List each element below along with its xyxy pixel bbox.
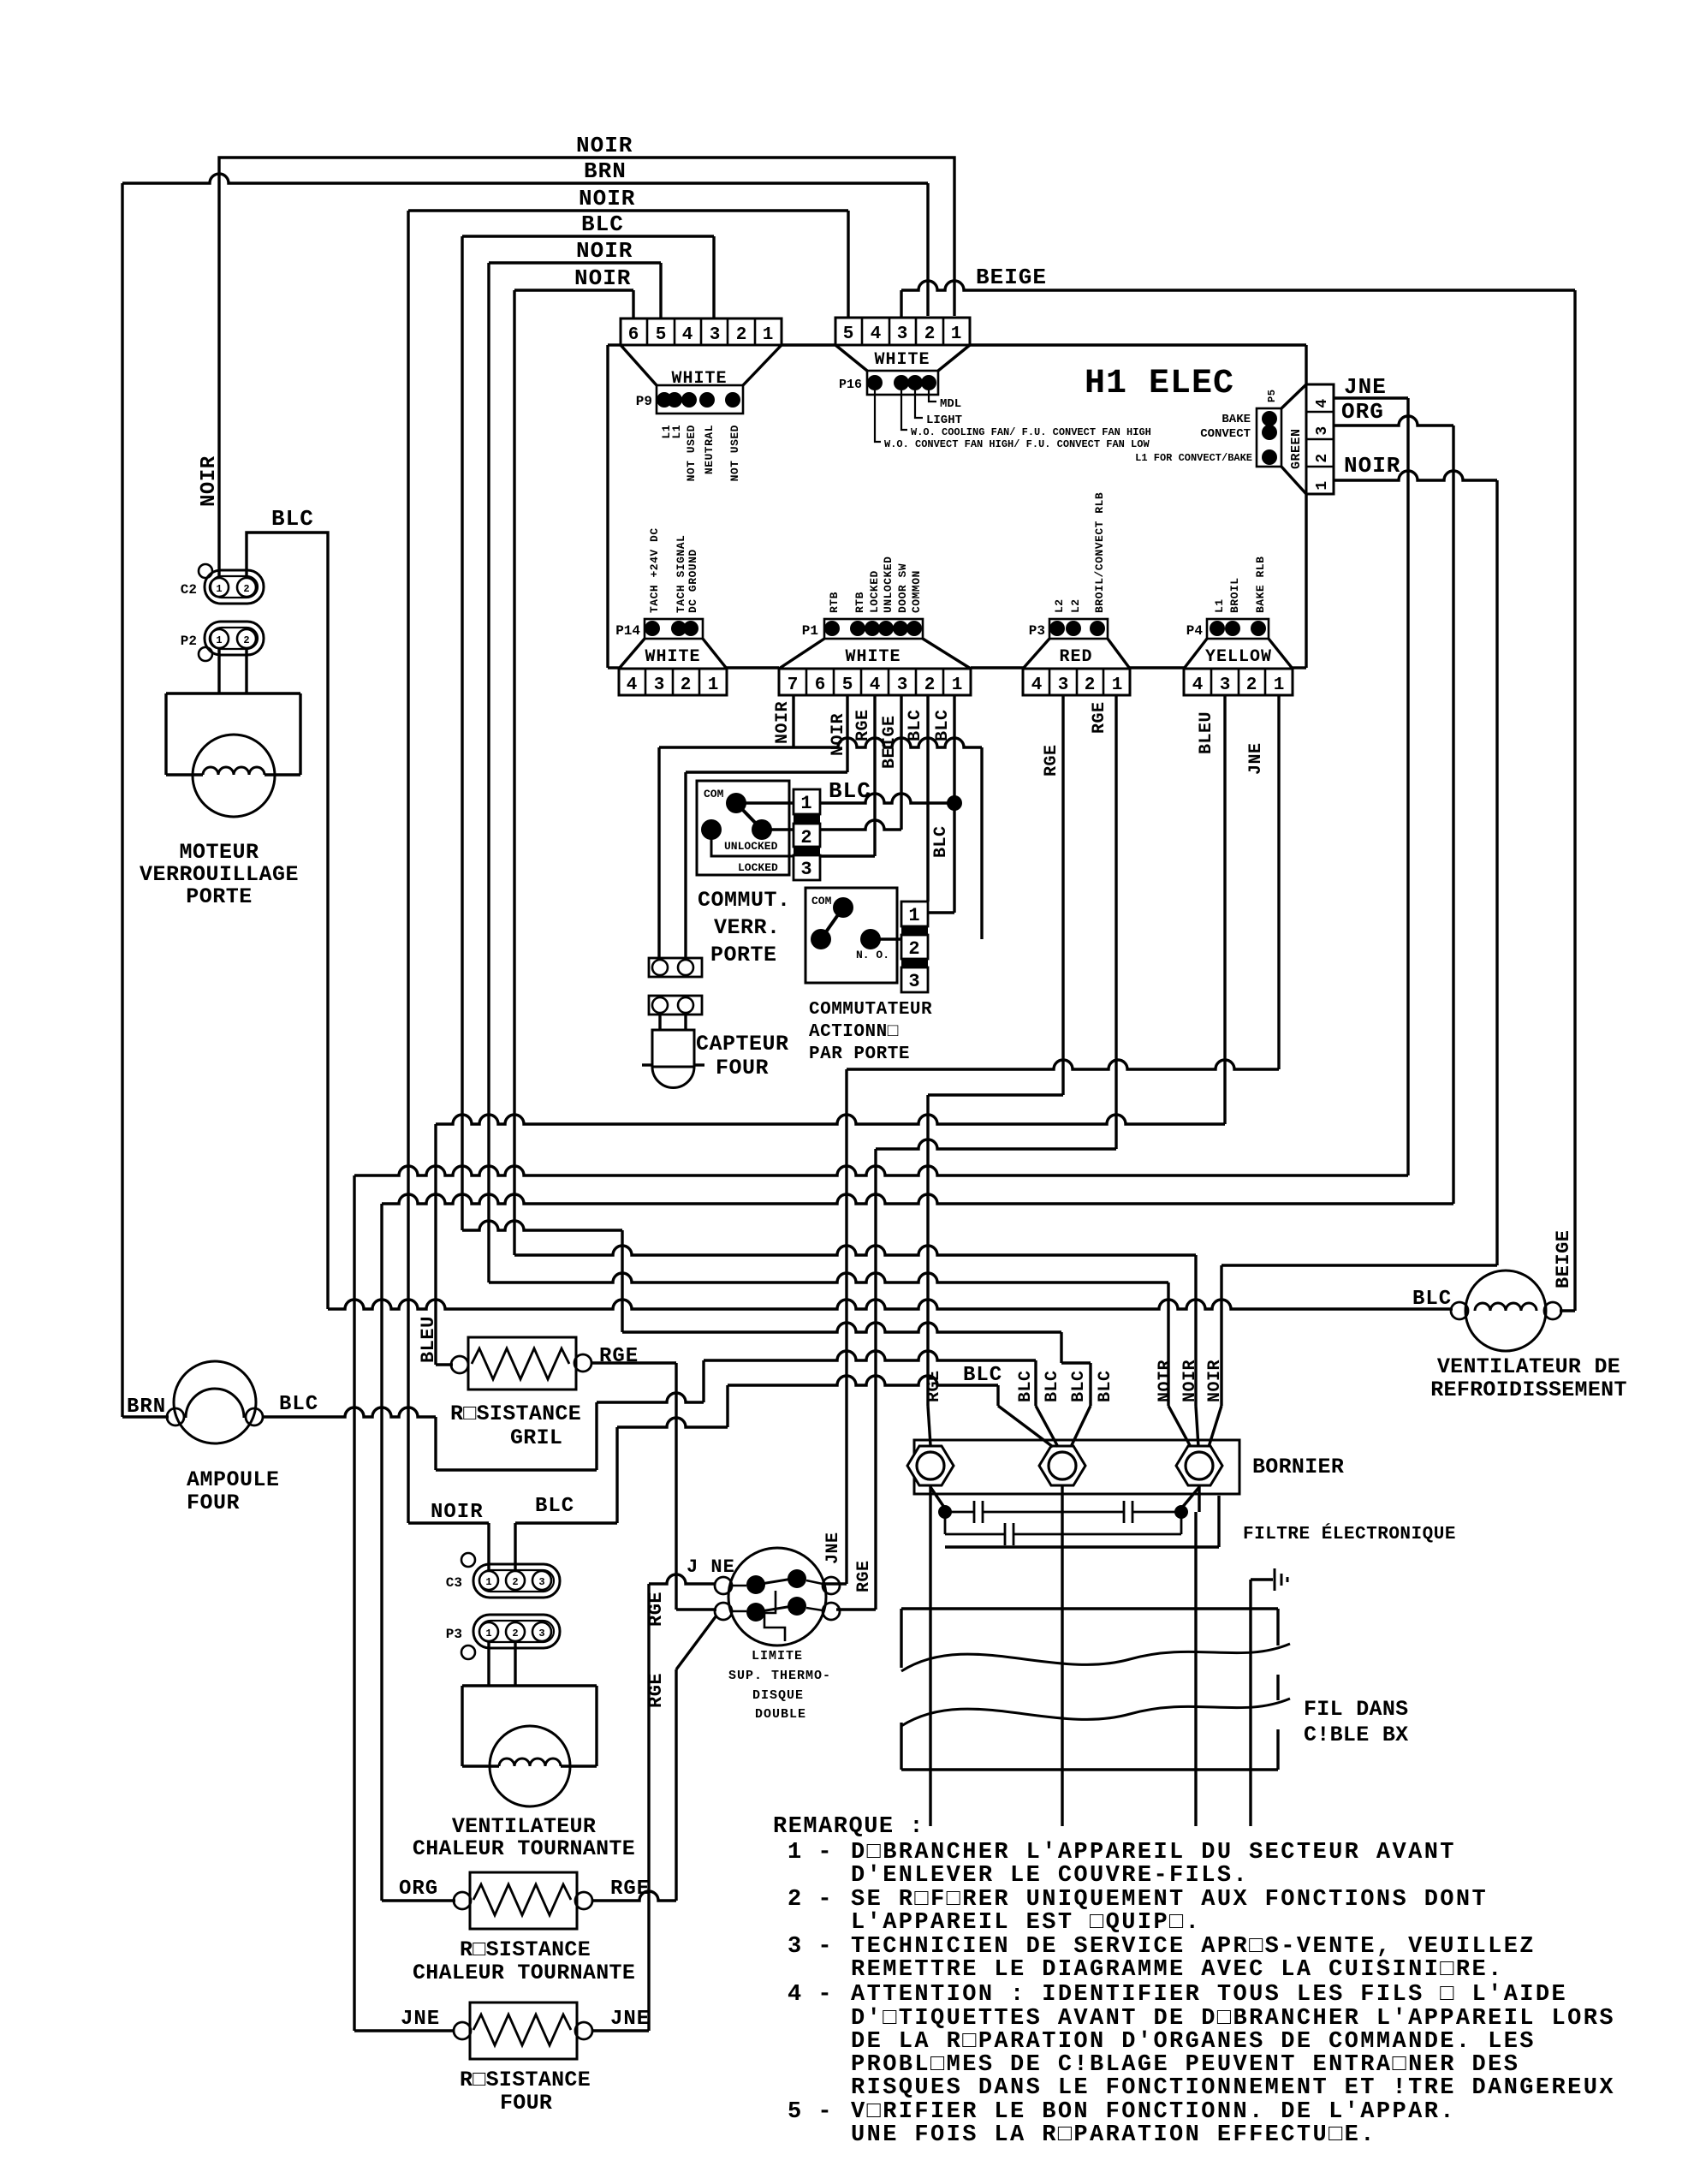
- wire BLC from C2 pin2: [247, 533, 328, 1309]
- wire NOIR from P1 pin7 to oven sensor: [792, 695, 794, 747]
- filter capacitor 3 lower rail: [944, 1512, 947, 1534]
- svg-text:VERR.: VERR.: [714, 915, 781, 940]
- wire NOIR from P5 pin1 to bornier: [1222, 1264, 1497, 1266]
- svg-text:DISQUE: DISQUE: [752, 1688, 804, 1703]
- svg-text:NOIR: NOIR: [431, 1501, 484, 1524]
- svg-text:BROIL/CONVECT RLB: BROIL/CONVECT RLB: [1093, 492, 1106, 613]
- svg-text:FOUR: FOUR: [187, 1491, 240, 1515]
- svg-text:DE LA R□PARATION D'ORGANES DE: DE LA R□PARATION D'ORGANES DE COMMANDE. …: [851, 2029, 1536, 2055]
- connector P9 cells 6-1: [621, 318, 782, 345]
- wire ORG from P5 pin3: [1334, 416, 1453, 425]
- svg-text:BLEU: BLEU: [1197, 711, 1216, 754]
- svg-text:3: 3: [897, 324, 908, 344]
- svg-text:WHITE: WHITE: [845, 647, 901, 667]
- wire BEIGE (P16 pin3 to cooling fan): [901, 281, 1575, 290]
- svg-text:COMMUTATEUR: COMMUTATEUR: [809, 1000, 932, 1020]
- svg-text:1: 1: [485, 1628, 491, 1639]
- wire P2 to motor: [217, 648, 220, 693]
- svg-text:H1 ELEC: H1 ELEC: [1085, 365, 1234, 403]
- wire BLC from P1 pin2: [926, 695, 929, 902]
- svg-text:UNE FOIS LA R□PARATION EFFECTU: UNE FOIS LA R□PARATION EFFECTU□E.: [851, 2122, 1376, 2148]
- svg-text:L'APPAREIL EST □QUIP□.: L'APPAREIL EST □QUIP□.: [851, 1910, 1201, 1936]
- svg-text:BLC: BLC: [963, 1364, 1002, 1387]
- svg-text:BLC: BLC: [1069, 1370, 1089, 1402]
- svg-text:VERROUILLAGE: VERROUILLAGE: [140, 862, 299, 887]
- bornier post 1: [907, 1446, 954, 1485]
- svg-text:CHALEUR TOURNANTE: CHALEUR TOURNANTE: [413, 1836, 635, 1861]
- connector P14 trapezoid WHITE: [619, 639, 645, 669]
- bornier post 2: [1039, 1446, 1085, 1485]
- svg-text:1: 1: [1274, 675, 1285, 695]
- oven sensor connector upper: [649, 958, 702, 977]
- svg-text:1: 1: [216, 634, 222, 646]
- wire bus B JNE (convect element to P5 pin4): [354, 1166, 1408, 1175]
- svg-text:4: 4: [870, 675, 881, 695]
- convection fan box: [462, 1684, 597, 1687]
- svg-text:RISQUES DANS LE FONCTIONNEMENT: RISQUES DANS LE FONCTIONNEMENT ET !TRE D…: [851, 2075, 1615, 2101]
- svg-text:PAR PORTE: PAR PORTE: [809, 1044, 910, 1064]
- ground symbol: [1249, 1580, 1251, 1826]
- wire RGE from convect element up to thermodisc: [592, 1891, 676, 1901]
- svg-text:FOUR: FOUR: [500, 2091, 552, 2116]
- convect element RESISTANCE CHALEUR TOURNANTE: [470, 1872, 577, 1929]
- connector C3: [461, 1553, 475, 1567]
- svg-text:6: 6: [628, 325, 639, 345]
- svg-text:PORTE: PORTE: [186, 884, 253, 909]
- convection fan VENTILATEUR CHALEUR TOURNANTE: [490, 1726, 570, 1806]
- wire NOIR (line 6, P9 pin6 to bus E): [514, 289, 633, 291]
- svg-text:UNLOCKED: UNLOCKED: [882, 556, 895, 613]
- svg-text:JNE: JNE: [610, 2008, 650, 2031]
- svg-text:REMETTRE LE DIAGRAMME AVEC LA: REMETTRE LE DIAGRAMME AVEC LA CUISINI□RE…: [851, 1957, 1504, 1983]
- svg-text:P3: P3: [1029, 623, 1045, 639]
- svg-text:1: 1: [216, 583, 222, 595]
- svg-text:DC GROUND: DC GROUND: [687, 549, 699, 613]
- svg-text:LIMITE: LIMITE: [752, 1649, 803, 1663]
- connector P16 pin header: [867, 371, 938, 395]
- broil element RESISTANCE GRIL: [468, 1337, 576, 1390]
- terminal block BORNIER box: [914, 1440, 1239, 1494]
- svg-text:JNE: JNE: [1344, 374, 1387, 400]
- svg-text:GREEN: GREEN: [1289, 428, 1304, 469]
- wire RGE from P1 pin4: [873, 695, 876, 856]
- connector P4 trapezoid YELLOW: [1184, 639, 1207, 669]
- oven lamp AMPOULE FOUR: [174, 1361, 256, 1443]
- svg-text:NOIR: NOIR: [574, 265, 631, 291]
- svg-text:VENTILATEUR DE: VENTILATEUR DE: [1437, 1354, 1620, 1379]
- svg-text:L1 FOR CONVECT/BAKE: L1 FOR CONVECT/BAKE: [1135, 452, 1252, 464]
- svg-text:3: 3: [897, 675, 908, 695]
- svg-text:V□RIFIER LE BON FONCTIONN. DE: V□RIFIER LE BON FONCTIONN. DE L'APPAR.: [851, 2099, 1456, 2125]
- svg-text:BRN: BRN: [584, 158, 627, 184]
- svg-text:NEUTRAL: NEUTRAL: [703, 425, 716, 474]
- P16 internal signal MDL: [929, 390, 936, 402]
- svg-text:4: 4: [1314, 398, 1331, 408]
- svg-text:BLC: BLC: [1016, 1370, 1036, 1402]
- svg-text:PORTE: PORTE: [710, 943, 777, 967]
- svg-text:4: 4: [1031, 675, 1043, 695]
- svg-text:BLC: BLC: [829, 778, 871, 804]
- svg-text:1: 1: [908, 905, 919, 926]
- svg-text:P14: P14: [615, 623, 640, 639]
- wire JNE from P5 pin4: [1334, 396, 1408, 399]
- filter wire post1 down: [929, 1485, 931, 1826]
- wire NOIR (line 5, P9 pin5 to bus L1): [489, 261, 661, 264]
- svg-text:RED: RED: [1059, 647, 1092, 667]
- svg-text:2 -: 2 -: [788, 1887, 833, 1913]
- connector P4 cells 4-1: [1184, 669, 1293, 695]
- svg-text:UNLOCKED: UNLOCKED: [724, 840, 778, 853]
- wire door lock sw terminal2 to BEIGE: [820, 820, 901, 830]
- svg-text:2: 2: [736, 325, 747, 345]
- svg-text:BLC: BLC: [535, 1495, 574, 1518]
- svg-text:L2: L2: [1069, 598, 1082, 613]
- svg-text:WHITE: WHITE: [645, 647, 700, 667]
- BX cable wave 1: [901, 1644, 1290, 1671]
- svg-text:3: 3: [654, 675, 665, 695]
- svg-text:BLC: BLC: [271, 506, 314, 532]
- svg-text:4: 4: [627, 675, 638, 695]
- svg-text:MDL: MDL: [940, 397, 961, 411]
- connector P3 oval: [473, 1615, 560, 1648]
- oven sensor connector lower: [649, 996, 702, 1015]
- svg-text:BLC: BLC: [931, 825, 951, 858]
- svg-text:LOCKED: LOCKED: [738, 861, 778, 874]
- svg-text:1: 1: [952, 675, 963, 695]
- svg-text:2: 2: [924, 675, 936, 695]
- svg-text:L2: L2: [1053, 598, 1066, 613]
- svg-text:BLC: BLC: [906, 709, 925, 741]
- door lock motor: [193, 735, 275, 817]
- svg-text:COM: COM: [704, 788, 724, 800]
- connector P9 pin header: [657, 385, 743, 414]
- svg-text:D'ENLEVER LE COUVRE-FILS.: D'ENLEVER LE COUVRE-FILS.: [851, 1863, 1249, 1889]
- BX cable wave 2: [901, 1699, 1290, 1726]
- wire BLC (P9 pin3 down to line D): [462, 235, 714, 237]
- wire NOIR from P5 pin1: [1334, 471, 1497, 480]
- svg-text:1: 1: [708, 675, 719, 695]
- svg-text:P1: P1: [802, 623, 818, 639]
- svg-text:ATTENTION : IDENTIFIER TOUS LE: ATTENTION : IDENTIFIER TOUS LES FILS □ L…: [851, 1982, 1567, 2008]
- door-actuated switch terminals 1-3: [901, 902, 928, 926]
- svg-text:REFROIDISSEMENT: REFROIDISSEMENT: [1430, 1378, 1627, 1402]
- svg-text:JNE: JNE: [401, 2008, 440, 2031]
- wire bus L1 NOIR (P9 pin5 chain to bornier): [489, 1273, 1168, 1282]
- connector P1 trapezoid WHITE: [779, 639, 824, 669]
- svg-text:P2: P2: [181, 634, 197, 649]
- connector P16 trapezoid WHITE: [835, 345, 867, 371]
- svg-text:1: 1: [485, 1576, 491, 1588]
- svg-text:BEIGE: BEIGE: [1553, 1229, 1574, 1288]
- svg-text:BEIGE: BEIGE: [880, 715, 900, 769]
- bornier post 3: [1176, 1446, 1222, 1485]
- svg-text:3 -: 3 -: [788, 1934, 833, 1960]
- svg-text:RGE: RGE: [610, 1878, 650, 1901]
- svg-text:AMPOULE: AMPOULE: [187, 1467, 280, 1492]
- svg-text:RGE: RGE: [599, 1345, 639, 1368]
- svg-text:P3: P3: [446, 1627, 462, 1642]
- svg-text:3: 3: [538, 1576, 544, 1588]
- svg-text:C2: C2: [181, 582, 197, 598]
- connector P1 cells 7-1: [779, 669, 971, 695]
- wire BLC from lamp (chain to bornier): [263, 1407, 436, 1417]
- filter box outline: [945, 1545, 1219, 1548]
- svg-text:4: 4: [682, 325, 693, 345]
- svg-text:R□SISTANCE: R□SISTANCE: [460, 1937, 591, 1962]
- svg-text:W.O. COOLING FAN/ F.U. CONVECT: W.O. COOLING FAN/ F.U. CONVECT FAN HIGH: [911, 426, 1151, 438]
- svg-text:NOIR: NOIR: [576, 238, 633, 264]
- svg-text:1: 1: [800, 793, 811, 814]
- svg-text:BAKE RLB: BAKE RLB: [1254, 556, 1267, 613]
- door lock motor box: [166, 692, 300, 694]
- svg-text:LIGHT: LIGHT: [926, 414, 962, 427]
- svg-text:JNE: JNE: [823, 1532, 843, 1564]
- svg-text:FILTRE ÉLECTRONIQUE: FILTRE ÉLECTRONIQUE: [1243, 1524, 1456, 1544]
- svg-text:NOIR: NOIR: [1156, 1360, 1175, 1402]
- svg-text:CAPTEUR: CAPTEUR: [696, 1032, 789, 1056]
- svg-text:J NE: J NE: [687, 1556, 735, 1578]
- wire bus D BLC: [462, 1221, 622, 1230]
- svg-text:YELLOW: YELLOW: [1205, 647, 1272, 667]
- svg-text:NOIR: NOIR: [579, 186, 635, 211]
- svg-text:L1: L1: [670, 425, 683, 439]
- svg-text:P9: P9: [636, 394, 652, 409]
- svg-text:JNE: JNE: [1246, 742, 1266, 775]
- svg-text:BLC: BLC: [1096, 1370, 1115, 1402]
- svg-text:5: 5: [842, 675, 853, 695]
- wire bus L2 BLC (C2 to cooling fan): [328, 1300, 1453, 1309]
- svg-text:BLC: BLC: [1412, 1288, 1452, 1311]
- svg-text:REMARQUE :: REMARQUE :: [773, 1814, 924, 1840]
- svg-text:2: 2: [1314, 453, 1331, 462]
- wire NOIR from P1 pin5 to oven sensor: [846, 695, 848, 772]
- P16 internal signal LIGHT: [915, 390, 923, 418]
- filter capacitor 2: [1123, 1501, 1126, 1523]
- wire BLC from P1 pin1: [953, 695, 955, 913]
- filter wire post2 down: [1061, 1485, 1063, 1826]
- svg-text:ORG: ORG: [399, 1878, 438, 1901]
- svg-text:COMMUT.: COMMUT.: [698, 888, 791, 913]
- svg-text:DOOR SW: DOOR SW: [896, 563, 909, 613]
- svg-text:RGE: RGE: [853, 709, 873, 741]
- thermodisc LIMITE SUP circle: [728, 1548, 826, 1645]
- svg-text:5: 5: [656, 325, 667, 345]
- svg-text:RGE: RGE: [1042, 744, 1061, 777]
- wires P3 to convection fan: [487, 1641, 490, 1686]
- svg-text:TACH SIGNAL: TACH SIGNAL: [675, 535, 687, 613]
- svg-text:4 -: 4 -: [788, 1982, 833, 2008]
- svg-text:BORNIER: BORNIER: [1252, 1455, 1344, 1479]
- svg-text:2: 2: [512, 1576, 518, 1588]
- bornier funnel wires post3: [1168, 1406, 1191, 1447]
- svg-text:FOUR: FOUR: [716, 1056, 769, 1080]
- svg-text:RGE: RGE: [924, 1370, 944, 1402]
- wire RGE bus (P3 pin3 to bornier post1): [1061, 695, 1064, 1095]
- svg-text:RTB: RTB: [828, 592, 841, 613]
- svg-text:BLC: BLC: [1043, 1370, 1062, 1402]
- svg-text:2: 2: [512, 1628, 518, 1639]
- svg-text:SE R□F□RER UNIQUEMENT AUX FONC: SE R□F□RER UNIQUEMENT AUX FONCTIONS DONT: [851, 1887, 1488, 1913]
- connector P4 pin header: [1207, 619, 1269, 639]
- svg-text:2: 2: [1085, 675, 1096, 695]
- svg-text:BEIGE: BEIGE: [976, 265, 1047, 290]
- connector P5 GREEN cells 4-1: [1306, 384, 1334, 494]
- svg-text:5 -: 5 -: [788, 2099, 833, 2125]
- wire JNE thermodisc to bake element: [649, 1574, 715, 1584]
- thermodisc thermal element: [764, 1591, 785, 1641]
- svg-text:NOIR: NOIR: [1180, 1360, 1200, 1402]
- connector P3 pin header: [1049, 619, 1108, 639]
- svg-text:1: 1: [763, 325, 774, 345]
- svg-text:3: 3: [1220, 675, 1231, 695]
- svg-text:2: 2: [908, 938, 919, 960]
- svg-text:C!BLE BX: C!BLE BX: [1304, 1723, 1408, 1747]
- wire NOIR (top line 1, C2 pin1 to P16 pin1): [219, 158, 954, 579]
- svg-text:N. O.: N. O.: [856, 949, 889, 961]
- svg-text:CHALEUR TOURNANTE: CHALEUR TOURNANTE: [413, 1961, 635, 1985]
- svg-text:2: 2: [243, 634, 249, 646]
- connector P5 trapezoid GREEN: [1281, 384, 1306, 408]
- svg-text:SUP. THERMO-: SUP. THERMO-: [728, 1669, 831, 1683]
- wire BRN (oven lamp to P16 pin2): [122, 174, 928, 183]
- wire BEIGE from P1 pin3: [900, 695, 902, 830]
- P16 internal signal cooling fan: [901, 390, 907, 430]
- svg-text:COMMON: COMMON: [910, 570, 923, 613]
- svg-text:2: 2: [800, 827, 811, 848]
- svg-text:1 -: 1 -: [788, 1840, 833, 1866]
- bake element RESISTANCE FOUR: [470, 2002, 577, 2059]
- thermodisc contacts: [746, 1575, 765, 1594]
- connector P2: [205, 622, 264, 655]
- svg-text:3: 3: [800, 859, 811, 880]
- svg-text:TACH +24V DC: TACH +24V DC: [648, 527, 661, 613]
- svg-text:4: 4: [1192, 675, 1204, 695]
- wire bus C ORG (convect element to P5 pin3): [382, 1194, 1453, 1204]
- svg-text:BLC: BLC: [933, 709, 953, 741]
- svg-text:BLC: BLC: [581, 211, 624, 237]
- svg-text:D'□TIQUETTES AVANT DE D□BRANCH: D'□TIQUETTES AVANT DE D□BRANCHER L'APPAR…: [851, 2006, 1615, 2032]
- wire bus E NOIR: [514, 1246, 1196, 1255]
- svg-text:3: 3: [908, 971, 919, 992]
- svg-text:NOT USED: NOT USED: [728, 425, 741, 481]
- svg-text:P4: P4: [1186, 623, 1204, 639]
- door-actuated switch COMMUTATEUR: [805, 888, 897, 983]
- connector P14 cells 4-1: [619, 669, 727, 695]
- wire RGE from broil element to thermodisc: [591, 1361, 676, 1364]
- svg-text:NOIR: NOIR: [829, 713, 848, 756]
- svg-text:3: 3: [1058, 675, 1069, 695]
- svg-text:NOIR: NOIR: [1205, 1360, 1225, 1402]
- svg-text:BLEU: BLEU: [418, 1316, 439, 1363]
- control board H1 ELEC outline: [608, 343, 621, 346]
- wire NOIR (line 3, C3 pin1 chain to P16 pin5): [408, 209, 848, 211]
- svg-text:2: 2: [681, 675, 692, 695]
- svg-text:6: 6: [815, 675, 826, 695]
- wire BLC chain from C3 pin2 to bornier: [514, 1523, 516, 1572]
- filter junction dot right: [1174, 1505, 1188, 1519]
- filter junction dot left: [938, 1505, 952, 1519]
- wire door lock sw terminal3 to RGE: [820, 854, 875, 857]
- svg-text:2: 2: [243, 583, 249, 595]
- svg-text:GRIL: GRIL: [510, 1425, 562, 1450]
- svg-text:RGE: RGE: [1090, 701, 1109, 734]
- svg-text:NOIR: NOIR: [576, 133, 633, 158]
- svg-text:BLC: BLC: [279, 1393, 318, 1416]
- svg-text:NOIR: NOIR: [1344, 453, 1400, 479]
- svg-text:RTB: RTB: [853, 592, 866, 613]
- svg-text:C3: C3: [446, 1575, 462, 1591]
- svg-text:BAKE: BAKE: [1222, 413, 1251, 426]
- BX cable box: [901, 1607, 1278, 1610]
- svg-text:FIL DANS: FIL DANS: [1304, 1697, 1408, 1722]
- svg-text:TECHNICIEN DE SERVICE APR□S-VE: TECHNICIEN DE SERVICE APR□S-VENTE, VEUIL…: [851, 1934, 1536, 1960]
- svg-text:R□SISTANCE: R□SISTANCE: [450, 1401, 581, 1426]
- svg-text:MOTEUR: MOTEUR: [179, 840, 259, 865]
- svg-text:RGE: RGE: [854, 1560, 874, 1592]
- bornier funnel wires post2: [998, 1406, 1053, 1447]
- svg-text:DOUBLE: DOUBLE: [755, 1707, 806, 1722]
- svg-text:ORG: ORG: [1341, 399, 1384, 425]
- connector P9 trapezoid WHITE: [621, 345, 657, 385]
- svg-text:PROBL□MES DE C!BLAGE PEUVENT E: PROBL□MES DE C!BLAGE PEUVENT ENTRA□NER D…: [851, 2052, 1519, 2078]
- svg-text:WHITE: WHITE: [874, 350, 930, 370]
- svg-text:3: 3: [710, 325, 721, 345]
- svg-text:2: 2: [1246, 675, 1257, 695]
- connector P1 pin header: [824, 619, 923, 639]
- svg-text:LOCKED: LOCKED: [868, 570, 881, 613]
- filter wire post3 down: [1198, 1485, 1200, 1512]
- svg-text:NOT USED: NOT USED: [685, 425, 698, 481]
- svg-text:W.O. CONVECT FAN HIGH/ F.U. CO: W.O. CONVECT FAN HIGH/ F.U. CONVECT FAN …: [884, 438, 1150, 450]
- wire RGE bus (P3 pin1 to thermodisc): [1115, 695, 1117, 1149]
- door lock switch terminals 1-3: [794, 789, 820, 814]
- connector P14 pin header: [645, 619, 703, 639]
- connector P16 cells 5-1: [835, 318, 970, 345]
- svg-text:1: 1: [1314, 480, 1331, 490]
- connector P3 cells 4-1: [1023, 669, 1130, 695]
- svg-text:P5: P5: [1266, 390, 1278, 402]
- svg-text:1: 1: [1112, 675, 1123, 695]
- svg-text:NOIR: NOIR: [198, 455, 221, 507]
- svg-text:L1: L1: [1213, 598, 1226, 613]
- svg-text:R□SISTANCE: R□SISTANCE: [460, 2068, 591, 2092]
- svg-text:P16: P16: [839, 378, 862, 392]
- thermodisc terminals: [715, 1577, 732, 1594]
- door lock switch COMMUT. VERR. PORTE: [697, 781, 789, 875]
- wire JNE bus (P4 pin1 to thermodisc): [1277, 695, 1280, 1069]
- svg-text:3: 3: [538, 1628, 544, 1639]
- svg-text:NOIR: NOIR: [773, 701, 793, 744]
- P16 internal signal convect fan: [875, 390, 881, 442]
- oven sensor bulb CAPTEUR FOUR: [652, 1030, 694, 1067]
- connector C2: [199, 564, 212, 578]
- svg-text:7: 7: [788, 675, 799, 695]
- wire BLEU bus A (P4 pin3 to broil element): [1223, 695, 1226, 1124]
- bornier funnel wires post1: [928, 1406, 930, 1445]
- svg-text:COM: COM: [811, 895, 832, 908]
- connector P5 pin header: [1257, 408, 1281, 467]
- wire BLC door lock sw terminal1: [820, 794, 954, 803]
- connector P3 trapezoid RED: [1023, 639, 1049, 669]
- svg-text:3: 3: [1314, 425, 1331, 435]
- svg-text:D□BRANCHER L'APPAREIL DU SECTE: D□BRANCHER L'APPAREIL DU SECTEUR AVANT: [851, 1840, 1456, 1866]
- svg-text:2: 2: [924, 324, 936, 344]
- svg-text:5: 5: [843, 324, 854, 344]
- svg-text:4: 4: [871, 324, 882, 344]
- filter capacitor 1: [945, 1511, 974, 1514]
- svg-text:BRN: BRN: [127, 1395, 166, 1419]
- svg-text:CONVECT: CONVECT: [1200, 427, 1251, 441]
